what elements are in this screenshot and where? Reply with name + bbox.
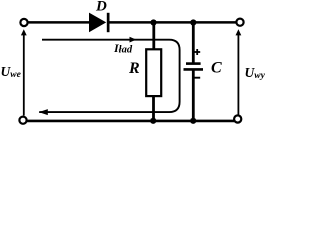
node junction top-C <box>190 19 196 25</box>
minus sign <box>194 77 201 79</box>
voltage arrow Uwy <box>236 29 242 114</box>
capacitor C plates <box>184 64 204 70</box>
wire bottom <box>27 120 235 123</box>
terminal top-right <box>236 19 243 26</box>
wire C top lead <box>192 23 195 64</box>
terminal bottom-left <box>19 117 26 124</box>
svg-text:R: R <box>128 60 140 77</box>
wire R bottom lead <box>152 96 155 121</box>
terminal bottom-right <box>234 115 241 122</box>
resistor R <box>146 49 161 96</box>
plus sign <box>194 49 200 55</box>
terminal top-left <box>20 19 27 26</box>
node junction top-R <box>150 19 156 25</box>
diode D <box>89 13 110 33</box>
svg-text:D: D <box>95 0 107 15</box>
voltage arrow Uwe <box>21 29 27 115</box>
current arrowhead right (on top segment) <box>130 37 137 43</box>
wire C bottom lead <box>192 69 195 121</box>
wire R top lead <box>152 23 155 50</box>
node junction bottom-R <box>150 118 156 124</box>
wire top: cathode to right terminal <box>109 21 236 24</box>
wire top: anode segment <box>28 21 90 24</box>
current loop line (Ilad path) <box>39 40 179 112</box>
node junction bottom-C <box>190 118 196 124</box>
svg-text:C: C <box>211 60 222 77</box>
current arrowhead left (end of bottom segment) <box>39 109 48 115</box>
